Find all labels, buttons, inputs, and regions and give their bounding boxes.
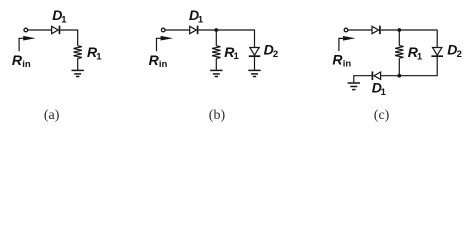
- label Rin (a): [12, 52, 31, 70]
- wire D2 to ground (b): [254, 57, 256, 70]
- top diode (c): [372, 26, 380, 35]
- node dot bottom (c): [397, 74, 401, 78]
- svg-text:2: 2: [457, 49, 462, 60]
- wire top diode through node to right corner (c): [381, 29, 438, 31]
- wire terminal to top diode (c): [348, 29, 372, 31]
- ground (c): [348, 83, 360, 90]
- svg-text:(b): (b): [209, 108, 226, 123]
- label D1 (b): [189, 7, 204, 25]
- wire right branch down to D2 (c): [436, 30, 438, 48]
- label D2 (c): [447, 41, 462, 60]
- svg-text:in: in: [343, 59, 352, 70]
- diode D1 (a): [52, 26, 60, 35]
- wire terminal to D1 (a): [28, 29, 52, 31]
- Rin arrow (c): [339, 36, 356, 51]
- wire D1 to corner and down to R1 (a): [60, 30, 77, 46]
- svg-text:(c): (c): [374, 108, 390, 123]
- svg-text:1: 1: [96, 51, 102, 62]
- svg-text:1: 1: [234, 51, 240, 62]
- svg-text:1: 1: [381, 87, 387, 98]
- wire node down to R1 (b): [215, 30, 217, 46]
- input terminal (c): [344, 28, 348, 32]
- wire node down to R1 (c): [398, 30, 400, 46]
- svg-text:in: in: [22, 59, 31, 70]
- resistor R1 (a): [73, 46, 81, 59]
- label R1 (a): [87, 44, 102, 62]
- diode D2 (c): [431, 48, 443, 57]
- wire R1 to ground (a): [77, 58, 79, 69]
- wire R1 down to bottom node (c): [398, 58, 400, 75]
- ground under D2 (b): [248, 70, 260, 76]
- label D1 (a): [52, 7, 67, 25]
- ground (a): [72, 70, 84, 76]
- label Rin (b): [149, 52, 168, 70]
- svg-text:1: 1: [61, 14, 67, 25]
- node dot (b): [214, 28, 218, 32]
- label R1 (c): [408, 44, 423, 62]
- svg-text:2: 2: [273, 49, 278, 60]
- label D1 (c): [372, 79, 387, 98]
- wire D2 down to bottom wire corner (c): [399, 57, 437, 76]
- input terminal (a): [24, 28, 28, 32]
- resistor R1 (b): [212, 46, 220, 59]
- node dot top (c): [397, 28, 401, 32]
- svg-text:(a): (a): [44, 108, 60, 123]
- bottom wire node to D1 (c): [381, 75, 400, 77]
- svg-text:R: R: [12, 52, 23, 68]
- label D2 (b): [264, 41, 279, 60]
- svg-text:1: 1: [417, 51, 423, 62]
- wire D1 through node to D2 corner (b): [198, 29, 254, 31]
- label Rin (c): [332, 52, 351, 70]
- diode D1 (b): [190, 26, 198, 35]
- wire terminal to D1 (b): [165, 29, 190, 31]
- Rin arrow (b): [157, 36, 174, 51]
- wire R1 to ground (b): [215, 58, 217, 69]
- svg-text:in: in: [159, 59, 168, 70]
- ground under R1 (b): [210, 70, 222, 76]
- wire corner down to D2 (b): [254, 30, 256, 48]
- resistor R1 (c): [395, 46, 403, 59]
- input terminal (b): [161, 28, 165, 32]
- wire D1 to left corner and down to ground (c): [354, 76, 372, 83]
- diode D1 (c): [372, 71, 380, 80]
- label R1 (b): [224, 44, 239, 62]
- svg-text:1: 1: [198, 14, 204, 25]
- Rin arrow (a): [19, 36, 36, 51]
- diode D2 (b): [249, 48, 261, 57]
